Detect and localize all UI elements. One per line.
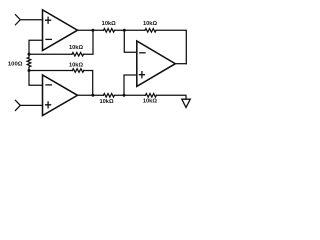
U2 plus sign <box>46 102 51 108</box>
svg-text:10kΩ: 10kΩ <box>99 99 113 105</box>
input terminal J1 (top) <box>15 15 20 25</box>
svg-text:100Ω: 100Ω <box>8 61 23 67</box>
node B junction dot <box>28 69 31 72</box>
op-amp U1 <box>43 10 78 51</box>
wire R3 to U2 output (down) <box>84 71 93 96</box>
op-amp U2 <box>43 75 78 116</box>
U2 minus sign <box>46 84 51 86</box>
U3 plus sign <box>139 72 144 78</box>
wire R5 to U3 output (feedback right corner) <box>156 30 186 63</box>
wire R4 to node C <box>115 29 146 31</box>
resistor R1 100 ohm (gain resistor) <box>27 54 31 70</box>
node D junction dot (U3 noninverting node) <box>123 94 126 97</box>
svg-text:10kΩ: 10kΩ <box>69 45 83 51</box>
U3 minus sign <box>140 52 145 54</box>
wire node D up to U3 noninverting input <box>124 75 137 95</box>
wire U1 inverting input to node A <box>29 40 43 54</box>
resistor R3 10k (U2 feedback) <box>72 69 84 73</box>
resistor R5 10k (U3 feedback) <box>145 29 156 33</box>
input terminal J2 (bottom) <box>15 100 20 110</box>
node U1out junction dot <box>91 29 94 32</box>
svg-text:10kΩ: 10kΩ <box>69 63 83 69</box>
U1 plus sign <box>46 17 51 23</box>
wire node B to R3 <box>29 70 72 72</box>
wire R7 to ground <box>156 95 186 99</box>
ground <box>182 99 191 107</box>
wire U3 output <box>175 63 186 65</box>
svg-text:10kΩ: 10kΩ <box>102 21 116 27</box>
resistor R6 10k (U2 out to U3 noninverting node) <box>103 94 114 98</box>
resistor R2 10k (U1 feedback) <box>72 52 84 56</box>
wire U1 output rail <box>78 29 104 31</box>
op-amp U3 <box>137 41 176 86</box>
wire R2 to U1 output (up) <box>84 30 94 54</box>
wire R6 to node D <box>114 94 145 96</box>
node U2out junction dot <box>91 94 94 97</box>
resistor R7 10k (node D to ground) <box>145 94 156 98</box>
wire J1 to U1 noninverting input <box>20 19 42 21</box>
node C junction dot (U3 inverting node) <box>123 29 126 32</box>
wire node A to R2 <box>29 53 72 55</box>
svg-text:10kΩ: 10kΩ <box>143 21 157 27</box>
resistor R4 10k (U1 out to U3 inverting node) <box>104 29 115 33</box>
U1 minus sign <box>46 38 51 40</box>
svg-text:10kΩ: 10kΩ <box>143 99 157 105</box>
wire node C down to U3 inverting input <box>124 30 137 52</box>
wire node B to U2 inverting input <box>29 71 43 86</box>
wire U2 output rail <box>78 94 104 96</box>
wire J2 to U2 noninverting input <box>20 104 42 106</box>
node A junction dot <box>28 53 31 56</box>
